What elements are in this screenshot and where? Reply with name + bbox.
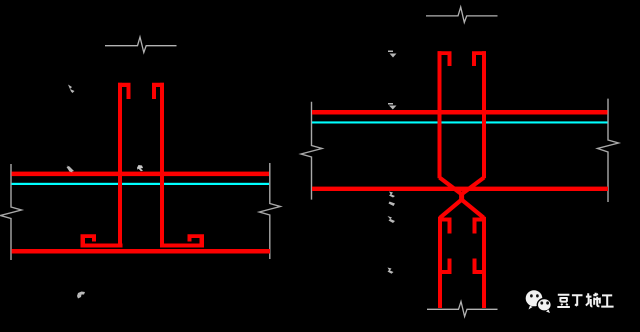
track channel right (opens left) [160, 234, 204, 247]
cyan layer line [312, 121, 608, 123]
small mark h [389, 202, 396, 207]
upper stud flange+lip right [472, 51, 486, 66]
stud web left [118, 83, 122, 248]
lower stud lower hook left [442, 259, 452, 275]
splice waist stub [459, 194, 464, 201]
break line (top, left figure) [105, 37, 177, 53]
upper stud web right [482, 51, 486, 178]
red slab bottom line [12, 249, 270, 254]
boundary line (left, with break) [1, 164, 22, 260]
boundary line (left, with break) [301, 102, 322, 200]
watermark text 豆丁施工 (drawn strokes) [557, 293, 613, 307]
lower stud lower hook right [473, 259, 483, 275]
lower stud web right [482, 217, 486, 308]
break line (bottom, right figure) [427, 302, 498, 317]
boundary line (right, with break) [598, 99, 619, 202]
lower stud upper hook right [473, 218, 483, 234]
stud web right [160, 83, 164, 248]
V diagonal left (upper) [440, 178, 462, 195]
track channel left (opens right) [81, 234, 123, 247]
stud top flange+lip right [152, 83, 164, 99]
small mark c [137, 165, 143, 171]
inverted-V diagonal left (lower) [440, 200, 462, 218]
break line (top, right figure) [426, 7, 498, 23]
small mark f (arrow down) [388, 103, 393, 105]
工 [601, 295, 613, 306]
small mark i [388, 216, 396, 223]
豆 [557, 295, 570, 307]
small mark d [77, 292, 85, 299]
施 [586, 293, 600, 307]
small mark e (arrow down) [388, 51, 393, 53]
red slab top line [12, 172, 270, 177]
inverted-V diagonal right (lower) [462, 200, 484, 218]
small mark g [389, 192, 395, 198]
lower stud upper hook left [442, 218, 452, 234]
wechat icon small bubble [537, 299, 551, 314]
lower stud web left [438, 217, 442, 308]
stud top flange+lip left [118, 83, 131, 99]
upper stud flange+lip left [438, 51, 452, 66]
red slab mid line [312, 187, 608, 191]
small mark a [68, 85, 75, 94]
small mark j [388, 268, 394, 274]
red slab top line [312, 110, 608, 115]
丁 [572, 295, 583, 306]
cyan layer line [12, 183, 270, 185]
small mark b [67, 166, 75, 173]
boundary line (right, with break) [259, 163, 280, 259]
V diagonal right (upper) [462, 178, 484, 195]
upper stud web left [438, 51, 442, 178]
wechat icon big bubble [526, 290, 543, 309]
